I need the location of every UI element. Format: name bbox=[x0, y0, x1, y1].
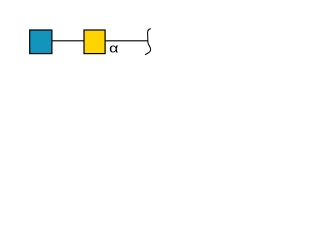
svg-text:α: α bbox=[109, 41, 119, 56]
monosaccharide blue square (GlcNAc) bbox=[30, 30, 52, 54]
wire blue square to yellow square bbox=[52, 40, 85, 42]
monosaccharide yellow square (GalNAc) bbox=[84, 30, 105, 54]
wire yellow square to reducing end bbox=[105, 40, 148, 42]
reducing end squiggle bbox=[145, 29, 150, 55]
